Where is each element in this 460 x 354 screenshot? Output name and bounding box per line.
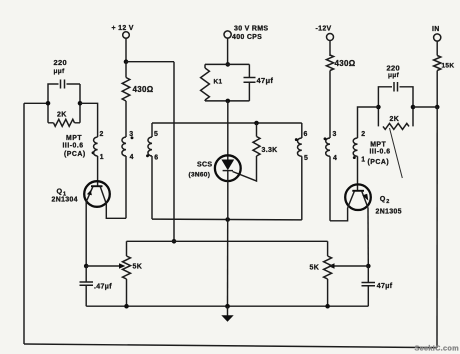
svg-text:2: 2 xyxy=(386,199,389,205)
svg-text:(3N60): (3N60) xyxy=(189,171,211,178)
node 3.3K top xyxy=(254,121,259,126)
capacitor .47uf left xyxy=(80,266,113,306)
terminal IN xyxy=(432,26,441,41)
resistor 2K left xyxy=(48,103,80,126)
wire 220R to IN line xyxy=(413,106,437,108)
wire 3.3K to gate xyxy=(233,156,257,181)
svg-text:IN: IN xyxy=(432,26,440,33)
svg-text:15K: 15K xyxy=(442,62,455,69)
node K1 top xyxy=(226,62,231,67)
svg-text:4: 4 xyxy=(333,155,337,162)
terminal -12V xyxy=(316,26,334,41)
svg-text:220: 220 xyxy=(54,58,67,67)
wire outer left horizontal xyxy=(24,102,48,104)
node SCS cathode on box bottom xyxy=(225,217,230,222)
svg-text:(PCA): (PCA) xyxy=(64,151,86,158)
relay coil K1 xyxy=(201,64,250,101)
wire bottom rail xyxy=(86,305,368,307)
wire 220R to winding2 right xyxy=(358,107,379,138)
transistor Q2 2N1305 xyxy=(345,184,402,215)
potentiometer 5K left xyxy=(123,241,143,306)
svg-text:47μf: 47μf xyxy=(377,283,393,290)
node pot right bottom xyxy=(325,304,330,309)
wire block to winding2 xyxy=(80,103,98,137)
node ground junction xyxy=(225,304,230,309)
wire winding4R down xyxy=(329,156,331,221)
svg-text:400 CPS: 400 CPS xyxy=(232,34,262,41)
resistor 3.3K xyxy=(253,123,278,156)
ground arrow xyxy=(221,306,233,322)
winding 2-1 left xyxy=(94,131,105,161)
potentiometer 5K right xyxy=(310,241,332,306)
svg-text:μμf: μμf xyxy=(54,68,66,75)
node IN junction xyxy=(435,105,440,110)
wire outer left vertical xyxy=(23,103,25,344)
wire +12V branch down xyxy=(173,62,175,242)
svg-text:Q: Q xyxy=(57,186,63,195)
capacitor 220uuf right xyxy=(378,63,413,107)
wiper arrow left pot xyxy=(86,263,125,268)
svg-text:MPT: MPT xyxy=(66,135,82,142)
winding 3-4 right xyxy=(324,131,338,162)
svg-text:(PCA): (PCA) xyxy=(368,159,390,166)
winding 2-1 right xyxy=(353,131,389,166)
capacitor 47uf K1 xyxy=(244,64,274,101)
wire winding1 to Q1 base xyxy=(97,156,99,186)
resistor 2K right xyxy=(378,107,413,129)
svg-text:2K: 2K xyxy=(57,111,67,118)
node 220R left xyxy=(376,105,381,110)
winding 3-4 left xyxy=(122,131,134,161)
svg-text:1: 1 xyxy=(100,154,104,161)
svg-text:2K: 2K xyxy=(390,116,400,123)
wire Q2 emitter down xyxy=(367,208,369,266)
wire SCS cathode to ground xyxy=(227,220,229,307)
wire K1 to SCS anode xyxy=(227,101,229,158)
svg-text:5: 5 xyxy=(154,131,158,138)
wire outer bottom xyxy=(24,344,437,348)
svg-text:2: 2 xyxy=(100,131,104,138)
node K1 bottom xyxy=(226,99,231,104)
node pot left bottom xyxy=(124,304,129,309)
capacitor 220uuf left xyxy=(48,58,80,103)
svg-text:1: 1 xyxy=(361,156,365,163)
svg-text:SCS: SCS xyxy=(197,161,212,168)
svg-text:2: 2 xyxy=(361,131,365,138)
svg-text:3.3K: 3.3K xyxy=(262,147,278,154)
wire IN down xyxy=(436,41,438,55)
terminal 30V RMS 400 CPS xyxy=(224,26,268,42)
capacitor 47uf right xyxy=(362,266,393,306)
svg-text:5K: 5K xyxy=(133,263,143,270)
svg-text:3: 3 xyxy=(333,131,337,138)
node 220R right xyxy=(411,105,416,110)
svg-text:MPT: MPT xyxy=(370,141,386,148)
svg-text:30 V RMS: 30 V RMS xyxy=(234,26,268,33)
svg-text:+ 12 V: + 12 V xyxy=(112,25,134,32)
wire Q2 collector jog xyxy=(330,208,348,221)
svg-text:6: 6 xyxy=(304,131,308,138)
svg-text:SeekIC.com: SeekIC.com xyxy=(415,344,460,353)
wire +12V branch right xyxy=(126,61,174,63)
winding 6-5 right xyxy=(295,123,308,220)
terminal +12V xyxy=(112,25,134,39)
svg-text:5K: 5K xyxy=(310,264,320,271)
svg-text:430Ω: 430Ω xyxy=(133,85,154,94)
wire IN line down right side xyxy=(436,107,438,348)
svg-text:47μf: 47μf xyxy=(257,76,274,85)
resistor 430ohm left xyxy=(122,78,154,102)
node rail junction xyxy=(172,239,177,244)
svg-text:2N1304: 2N1304 xyxy=(52,197,78,204)
wire Q1 emitter down xyxy=(85,202,87,266)
svg-text:III-0.6: III-0.6 xyxy=(63,143,84,150)
wire box bottom edge xyxy=(152,218,302,221)
wire winding1R to Q2 base xyxy=(357,156,359,191)
transistor Q1 2N1304 xyxy=(52,181,110,207)
svg-text:K1: K1 xyxy=(214,78,223,85)
svg-text:Q: Q xyxy=(380,194,386,203)
svg-text:6: 6 xyxy=(154,155,158,162)
svg-text:5: 5 xyxy=(304,155,308,162)
node +12V junction xyxy=(124,59,129,64)
wire box top edge xyxy=(152,122,302,124)
node Q1 emitter junction xyxy=(84,264,89,269)
transformer label MPT left xyxy=(63,135,95,158)
wire Q1 collector jog xyxy=(106,204,126,219)
wire bias rail xyxy=(127,240,328,242)
wire 430L top xyxy=(125,62,127,78)
wiper arrow right pot xyxy=(328,263,368,268)
wire 30V down xyxy=(227,38,229,64)
resistor 430ohm right xyxy=(326,55,355,71)
wire +12V down xyxy=(125,38,127,61)
node Q2 emitter junction xyxy=(366,264,371,269)
svg-text:.47μf: .47μf xyxy=(94,283,112,290)
svg-text:2N1305: 2N1305 xyxy=(376,208,402,215)
wire 15K down xyxy=(436,71,438,108)
wire -12V down xyxy=(329,41,331,57)
wire 430L to winding3 xyxy=(125,101,127,137)
svg-text:4: 4 xyxy=(130,154,134,161)
leader line 2K right xyxy=(390,128,403,178)
resistor 15K xyxy=(434,56,455,71)
svg-text:μμf: μμf xyxy=(388,72,400,79)
node 220L right xyxy=(78,101,83,106)
SCS 3N60 xyxy=(189,155,241,219)
transformer label MPT right xyxy=(370,141,391,155)
wire 430R to winding3 xyxy=(329,71,331,139)
svg-text:430Ω: 430Ω xyxy=(335,59,356,68)
svg-text:III-0.6: III-0.6 xyxy=(370,149,391,156)
node 220L left xyxy=(46,101,51,106)
winding 5-6 left xyxy=(146,123,159,219)
wire winding4 down xyxy=(125,156,127,218)
svg-text:-12V: -12V xyxy=(316,26,332,33)
